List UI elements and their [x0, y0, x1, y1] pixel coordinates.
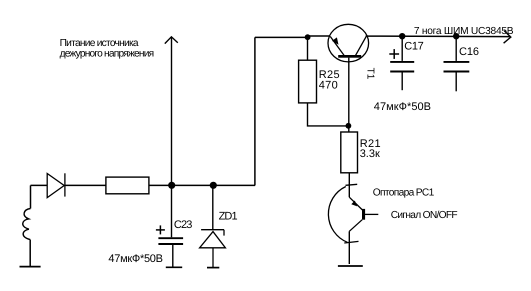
capacitor C16 — [444, 36, 470, 91]
transistor T1 (PNP, top) — [328, 24, 369, 62]
pin tick bottom — [344, 241, 358, 243]
ground terminal (C23) — [166, 266, 182, 268]
arrow on collector diagonal — [351, 201, 357, 207]
wire: left drop to inductor — [30, 185, 32, 208]
wire: top rail right (transistor collector to output arrow) — [366, 35, 510, 38]
supply arrow (Питание источника дежурного напряжения) — [165, 37, 178, 186]
resistor (input, unlabeled) — [106, 177, 149, 194]
capacitor C17 (polarized) — [390, 36, 414, 90]
wire: top rail left (riser to transistor emitter) — [255, 36, 330, 37]
zener diode ZD1 — [200, 230, 226, 267]
node: R21 top junction — [346, 123, 352, 129]
ground terminal (inductor) — [20, 266, 41, 268]
ground terminal (optocoupler emitter) — [338, 265, 363, 267]
wire: T1 base lead down — [348, 58, 350, 126]
wire: R21 bottom lead — [348, 173, 350, 197]
node: C16 junction — [453, 33, 459, 39]
svg-text:3.3к: 3.3к — [360, 148, 380, 160]
diode D1 — [47, 173, 65, 197]
plus sign of C23 — [156, 225, 165, 234]
wire: R25 bottom lead to R21 junction — [308, 103, 349, 126]
inductor L1 — [23, 209, 31, 240]
base lead to the right — [365, 213, 378, 215]
svg-text:C17: C17 — [404, 41, 423, 53]
svg-text:470: 470 — [319, 79, 338, 91]
wire: ZD1 top lead — [212, 185, 214, 229]
svg-text:дежурного напряжения: дежурного напряжения — [60, 48, 154, 59]
wire: junction to R21 — [348, 126, 350, 132]
emitter vertical — [348, 231, 350, 264]
svg-text:ZD1: ZD1 — [219, 210, 238, 222]
svg-text:47мкФ*50В: 47мкФ*50В — [374, 101, 431, 113]
plus sign of C17 — [389, 49, 399, 59]
output arrowhead (to pin 7 of PWM) — [504, 31, 511, 44]
svg-text:Т1: Т1 — [365, 68, 376, 80]
svg-text:Сигнал ON/OFF: Сигнал ON/OFF — [391, 210, 458, 221]
pin tick top — [346, 184, 358, 185]
node B (junction ZD1) — [210, 182, 217, 189]
wire: R25 top lead — [307, 37, 309, 60]
resistor R21 — [341, 132, 358, 173]
node: C17 junction — [399, 33, 405, 39]
node: R25 top junction — [305, 34, 311, 40]
capacitor C23 (polarized) — [158, 238, 183, 267]
optocoupler PC1 phototransistor — [328, 184, 378, 264]
svg-text:7 нога ШИМ UC3845B: 7 нога ШИМ UC3845B — [414, 26, 514, 37]
package arc — [328, 187, 347, 243]
svg-text:C23: C23 — [174, 219, 192, 231]
svg-text:47мкФ*50В: 47мкФ*50В — [108, 253, 162, 265]
ground terminal (ZD1) — [207, 267, 219, 269]
collector diagonal — [349, 197, 362, 210]
wire: bottom rail from inductor to riser corner — [31, 184, 256, 186]
node A (junction C23 / supply arrow) — [168, 182, 175, 189]
wire: riser from bottom rail to top rail — [254, 37, 256, 185]
emitter diagonal — [349, 220, 362, 232]
svg-text:Оптопара PC1: Оптопара PC1 — [373, 187, 435, 198]
svg-text:C16: C16 — [459, 46, 479, 58]
base bar — [362, 209, 365, 220]
wire: C23 top lead — [171, 185, 173, 237]
svg-text:Питание источника: Питание источника — [60, 38, 139, 49]
wire: inductor bottom lead — [29, 240, 31, 267]
resistor R25 — [299, 60, 317, 103]
